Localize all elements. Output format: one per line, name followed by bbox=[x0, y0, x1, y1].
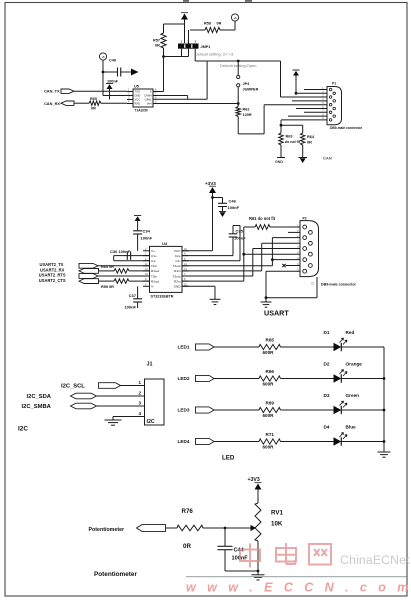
svg-text:+3V3: +3V3 bbox=[205, 181, 216, 186]
svg-text:100nF: 100nF bbox=[107, 80, 119, 84]
svg-text:CAN_TX: CAN_TX bbox=[44, 89, 60, 94]
svg-text:LED: LED bbox=[222, 455, 235, 462]
svg-text:D2: D2 bbox=[324, 362, 330, 367]
svg-text:+3V3: +3V3 bbox=[248, 477, 260, 483]
svg-text:P1: P1 bbox=[332, 82, 336, 86]
svg-text:V+: V+ bbox=[151, 249, 155, 253]
svg-text:0R: 0R bbox=[307, 141, 312, 145]
svg-text:R60 0R: R60 0R bbox=[101, 265, 114, 269]
svg-text:TXD: TXD bbox=[135, 90, 140, 94]
svg-text:U4: U4 bbox=[162, 241, 168, 246]
svg-text:D3: D3 bbox=[324, 393, 330, 398]
svg-text:LED4: LED4 bbox=[178, 439, 190, 444]
svg-text:LED1: LED1 bbox=[178, 345, 190, 350]
svg-text:D4: D4 bbox=[324, 425, 330, 430]
svg-text:GND: GND bbox=[174, 285, 182, 289]
svg-text:I2C_SMBA: I2C_SMBA bbox=[22, 404, 52, 410]
svg-text:GND: GND bbox=[275, 160, 283, 164]
svg-text:R1in: R1in bbox=[174, 269, 181, 273]
svg-text:R76: R76 bbox=[182, 508, 194, 515]
svg-text:TJA1050: TJA1050 bbox=[135, 109, 148, 113]
svg-text:VCC: VCC bbox=[174, 249, 181, 253]
svg-text:T1out: T1out bbox=[173, 264, 181, 268]
svg-text:100nF: 100nF bbox=[124, 305, 136, 310]
svg-text:Vref: Vref bbox=[147, 102, 152, 106]
svg-text:12: 12 bbox=[311, 281, 315, 285]
svg-text:JP4: JP4 bbox=[243, 82, 251, 86]
svg-text:Orange: Orange bbox=[346, 362, 363, 367]
svg-text:100nF: 100nF bbox=[228, 205, 240, 210]
svg-text:LED2: LED2 bbox=[178, 376, 190, 381]
svg-text:R2in: R2in bbox=[174, 279, 181, 283]
svg-text:T2out: T2out bbox=[173, 274, 181, 278]
svg-text:120R: 120R bbox=[243, 113, 252, 117]
svg-text:JUMPER: JUMPER bbox=[243, 88, 259, 92]
svg-text:VCC: VCC bbox=[135, 98, 141, 102]
svg-text:DB9-male connector: DB9-male connector bbox=[321, 283, 357, 287]
svg-text:DB9-male connector: DB9-male connector bbox=[330, 126, 363, 130]
svg-text:CAN_RX: CAN_RX bbox=[44, 101, 60, 106]
svg-text:C35: C35 bbox=[236, 229, 244, 234]
svg-text:USART2_CTS: USART2_CTS bbox=[39, 278, 66, 283]
svg-text:R69: R69 bbox=[266, 400, 275, 405]
svg-text:600R: 600R bbox=[263, 444, 275, 449]
svg-text:0R: 0R bbox=[91, 107, 96, 111]
svg-text:C34: C34 bbox=[143, 229, 151, 234]
svg-text:I2C: I2C bbox=[18, 426, 28, 433]
svg-text:Blue: Blue bbox=[346, 425, 357, 430]
svg-text:S: S bbox=[150, 90, 152, 94]
svg-text:I2C_SDA: I2C_SDA bbox=[27, 394, 52, 400]
svg-text:USART: USART bbox=[264, 309, 289, 318]
svg-text:CANH: CANH bbox=[144, 94, 151, 98]
svg-text:R62: R62 bbox=[243, 108, 250, 112]
svg-text:R65: R65 bbox=[266, 337, 275, 342]
svg-text:ChinaECNet: ChinaECNet bbox=[340, 553, 410, 567]
svg-text:600R: 600R bbox=[263, 413, 275, 418]
svg-text:R1out: R1out bbox=[151, 269, 159, 273]
svg-text:0R: 0R bbox=[217, 22, 222, 26]
svg-text:C2+: C2+ bbox=[175, 254, 181, 258]
svg-text:Potentiometer: Potentiometer bbox=[89, 527, 125, 533]
svg-text:GND: GND bbox=[135, 94, 141, 98]
svg-text:R64: R64 bbox=[307, 135, 315, 139]
svg-text:CANL: CANL bbox=[145, 98, 152, 102]
svg-text:Red: Red bbox=[346, 330, 355, 335]
svg-text:Green: Green bbox=[346, 393, 360, 398]
svg-text:JMP1: JMP1 bbox=[201, 45, 211, 49]
svg-text:V-: V- bbox=[151, 285, 154, 289]
svg-text:RV1: RV1 bbox=[271, 510, 283, 517]
svg-text:I2C_SCL: I2C_SCL bbox=[61, 384, 85, 390]
svg-text:C2-: C2- bbox=[176, 259, 181, 263]
svg-text:R60: R60 bbox=[90, 97, 97, 101]
svg-text:w w w . E C C N . c o m: w w w . E C C N . c o m bbox=[186, 581, 411, 595]
svg-text:D1: D1 bbox=[324, 330, 330, 335]
svg-text:100nF: 100nF bbox=[141, 236, 153, 241]
svg-text:ST3232EBTR: ST3232EBTR bbox=[151, 295, 174, 299]
svg-text:Default setting: 2<->3: Default setting: 2<->3 bbox=[195, 52, 234, 57]
svg-text:R57: R57 bbox=[153, 39, 160, 43]
svg-text:C49: C49 bbox=[109, 59, 116, 63]
svg-text:R66: R66 bbox=[266, 369, 275, 374]
svg-text:R63: R63 bbox=[286, 135, 293, 139]
svg-text:C1+: C1+ bbox=[151, 254, 157, 258]
svg-text:RXD: RXD bbox=[135, 102, 141, 106]
svg-text:J1: J1 bbox=[147, 362, 153, 368]
svg-text:P2: P2 bbox=[303, 217, 307, 221]
svg-text:U5: U5 bbox=[134, 85, 139, 89]
svg-text:0R: 0R bbox=[183, 543, 191, 550]
svg-text:600R: 600R bbox=[263, 381, 275, 386]
svg-text:T2in: T2in bbox=[151, 274, 157, 278]
svg-text:C1-: C1- bbox=[151, 259, 156, 263]
svg-text:R2out: R2out bbox=[151, 279, 159, 283]
svg-text:I2C: I2C bbox=[147, 419, 155, 425]
svg-text:C36 100nF: C36 100nF bbox=[110, 249, 131, 254]
svg-text:R59 0R: R59 0R bbox=[101, 285, 114, 289]
svg-text:CAN: CAN bbox=[323, 156, 332, 161]
svg-text:0R: 0R bbox=[155, 44, 160, 48]
svg-text:600R: 600R bbox=[263, 350, 275, 355]
svg-text:R58: R58 bbox=[204, 22, 211, 26]
svg-text:do not fit: do not fit bbox=[285, 140, 301, 144]
svg-text:T1in: T1in bbox=[151, 264, 157, 268]
svg-text:USART2_RTS: USART2_RTS bbox=[39, 273, 66, 278]
svg-text:10K: 10K bbox=[271, 521, 283, 528]
svg-text:LED3: LED3 bbox=[178, 408, 190, 413]
svg-text:C37: C37 bbox=[129, 293, 137, 298]
svg-text:Potentiometer: Potentiometer bbox=[94, 571, 137, 578]
svg-text:R61 do not fit: R61 do not fit bbox=[249, 216, 276, 221]
svg-text:C46: C46 bbox=[229, 199, 237, 204]
svg-text:R71: R71 bbox=[266, 432, 275, 437]
